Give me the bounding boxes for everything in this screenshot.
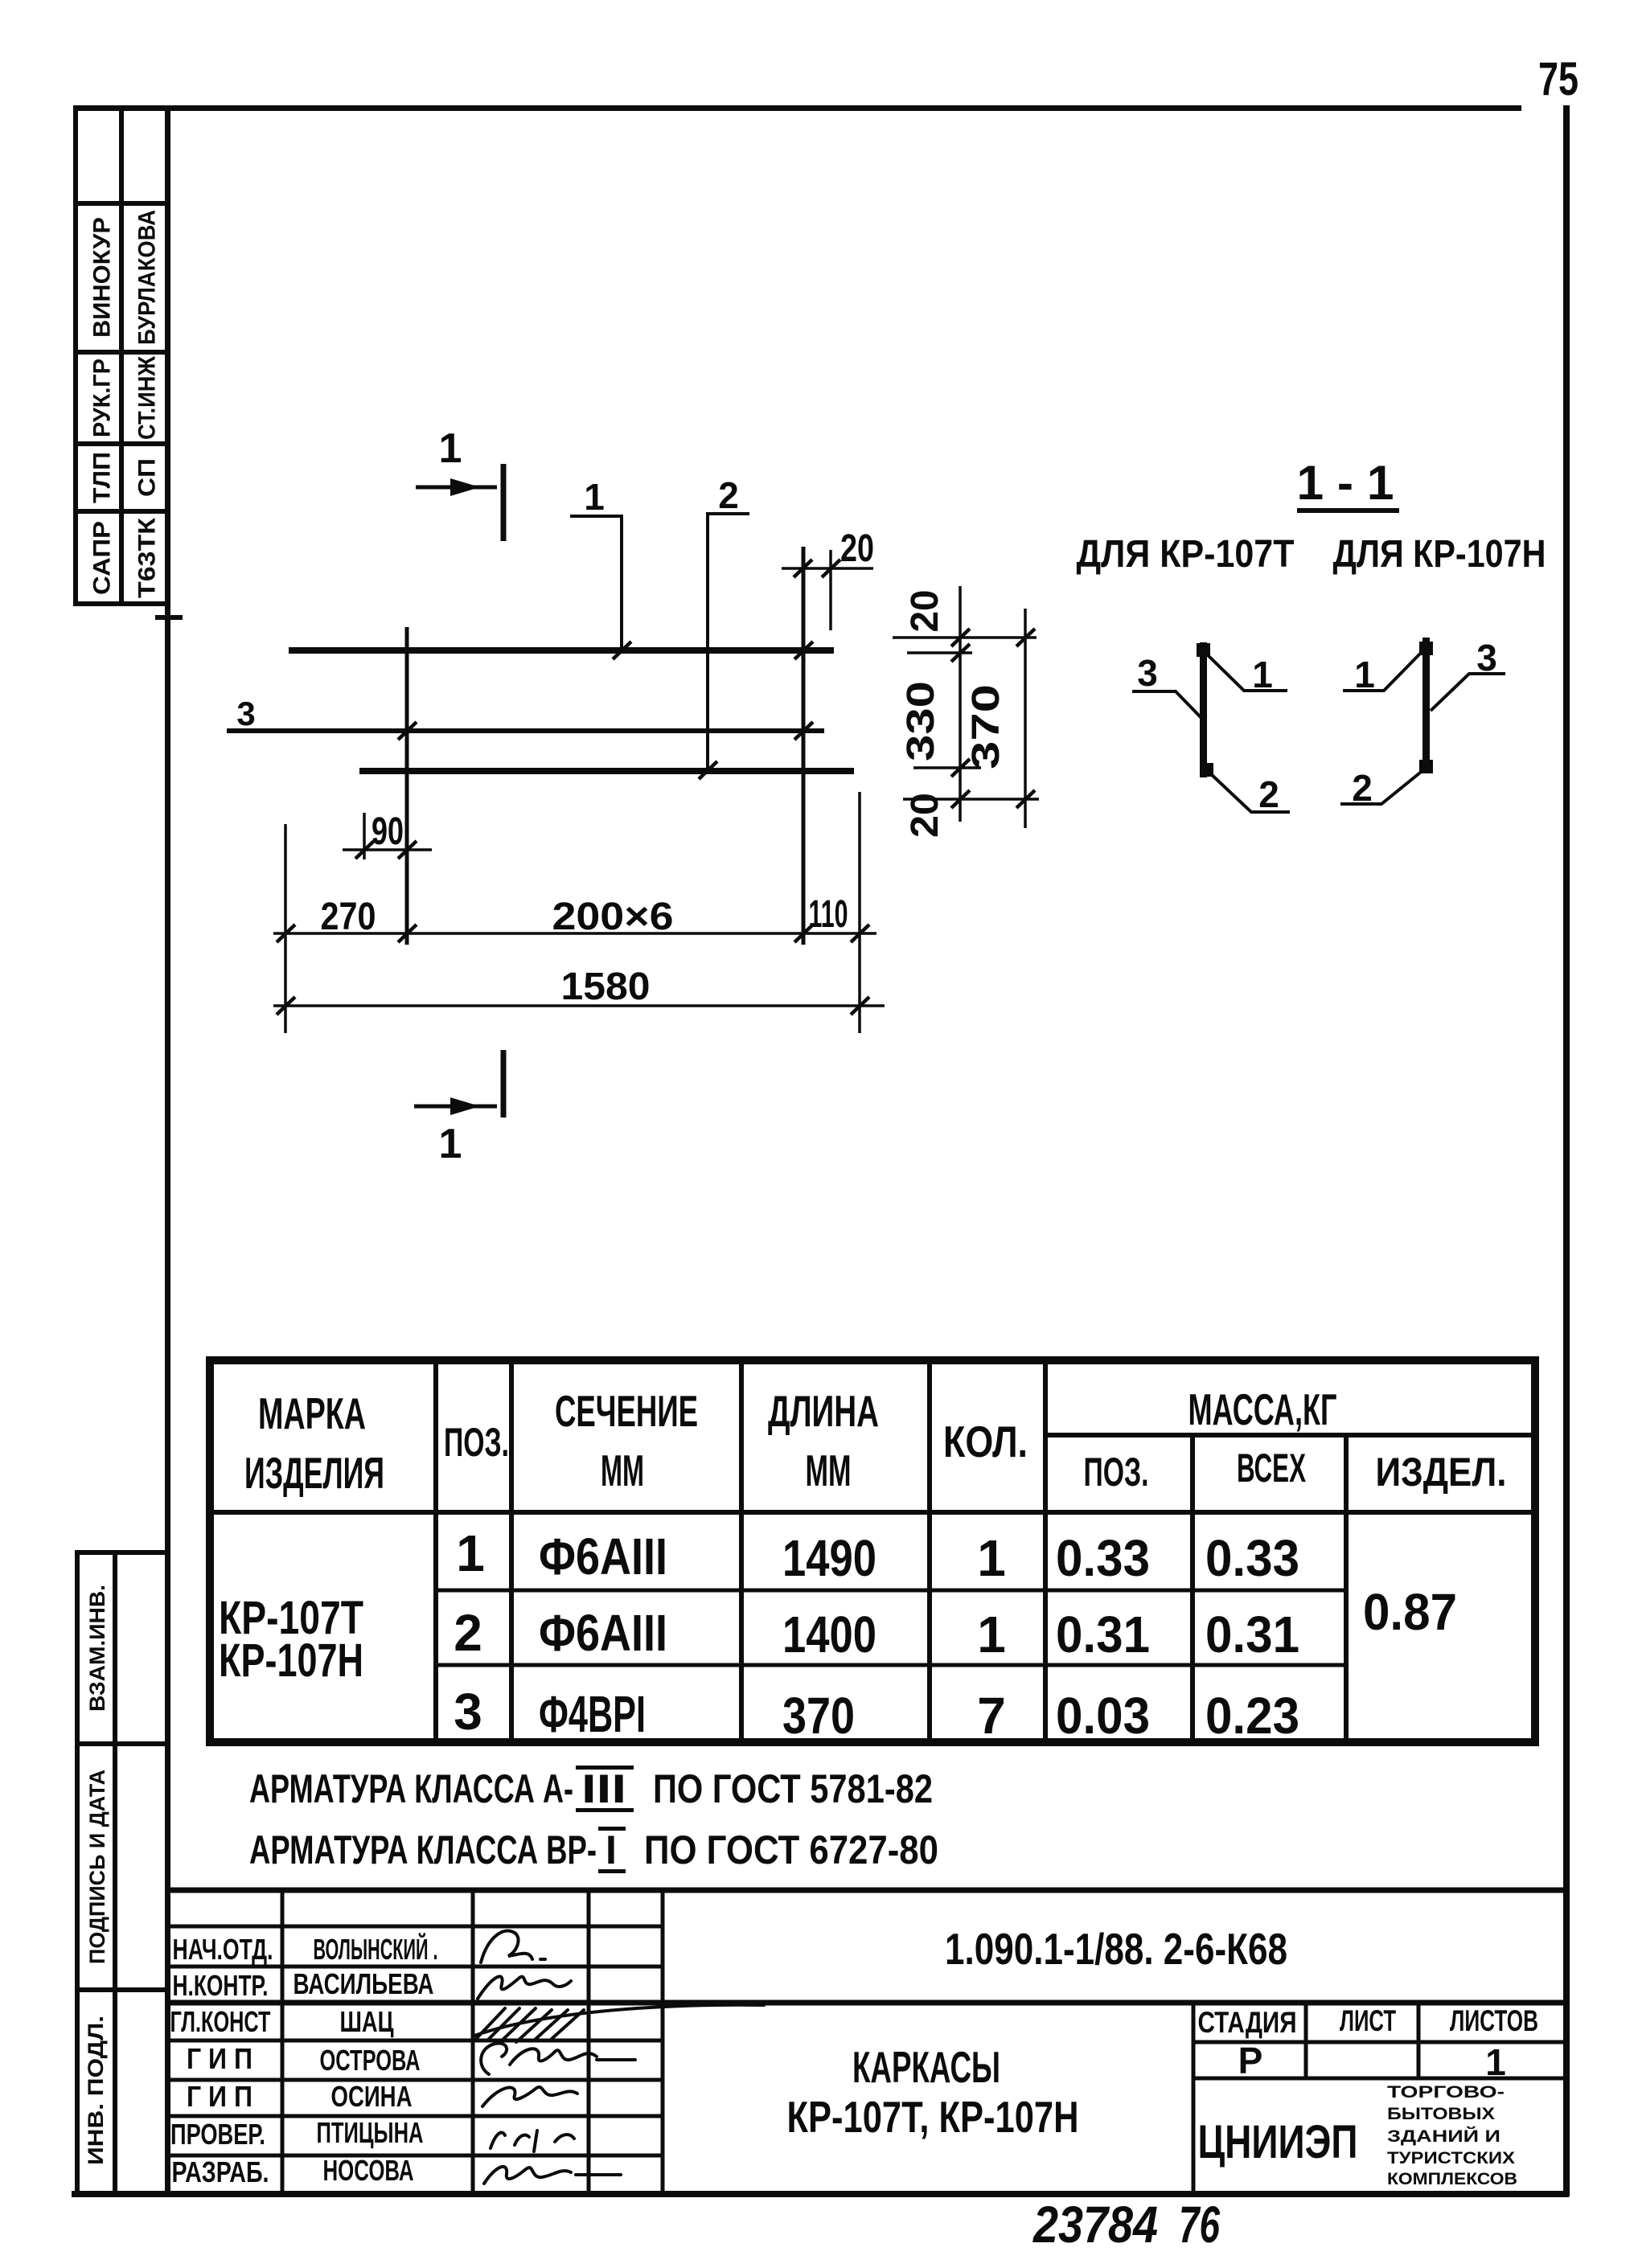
- svg-text:370: 370: [965, 684, 1008, 769]
- svg-text:1: 1: [977, 1529, 1006, 1587]
- svg-text:1: 1: [1354, 654, 1375, 695]
- svg-text:ЗДАНИЙ И: ЗДАНИЙ И: [1387, 2127, 1500, 2146]
- svg-text:90: 90: [372, 810, 404, 853]
- svg-text:ВАСИЛЬЕВА: ВАСИЛЬЕВА: [294, 1967, 434, 2000]
- svg-text:КАРКАСЫ: КАРКАСЫ: [852, 2042, 1000, 2092]
- svg-text:Г И П: Г И П: [187, 2042, 252, 2075]
- svg-text:ЛИСТ: ЛИСТ: [1340, 2004, 1396, 2037]
- svg-text:2: 2: [454, 1604, 482, 1662]
- svg-text:ДЛЯ КР-107Т: ДЛЯ КР-107Т: [1077, 533, 1295, 576]
- svg-text:Р: Р: [1238, 2040, 1263, 2081]
- svg-text:0.87: 0.87: [1363, 1583, 1457, 1641]
- svg-text:0.31: 0.31: [1205, 1606, 1299, 1663]
- svg-text:Т63ТК: Т63ТК: [134, 517, 161, 598]
- svg-text:3: 3: [1476, 637, 1497, 679]
- svg-text:ГЛ.КОНСТ: ГЛ.КОНСТ: [170, 2005, 271, 2038]
- svg-text:3: 3: [1137, 652, 1158, 694]
- svg-text:АРМАТУРА КЛАССА ВР-: АРМАТУРА КЛАССА ВР-: [249, 1827, 597, 1872]
- svg-text:ТЛП: ТЛП: [89, 452, 116, 503]
- svg-text:2: 2: [1352, 767, 1373, 809]
- svg-text:200×6: 200×6: [552, 896, 674, 938]
- svg-text:ММ: ММ: [601, 1446, 644, 1495]
- svg-text:I: I: [606, 1827, 617, 1872]
- svg-text:Ф6АIII: Ф6АIII: [539, 1604, 667, 1662]
- svg-text:ЛИСТОВ: ЛИСТОВ: [1450, 2004, 1538, 2037]
- svg-text:СЕЧЕНИЕ: СЕЧЕНИЕ: [555, 1386, 698, 1436]
- svg-text:СП: СП: [134, 458, 161, 497]
- svg-text:ПТИЦЫНА: ПТИЦЫНА: [317, 2116, 424, 2149]
- svg-text:ВЗАМ.ИНВ.: ВЗАМ.ИНВ.: [85, 1585, 109, 1712]
- svg-text:СТ.ИНЖ: СТ.ИНЖ: [134, 355, 161, 440]
- svg-text:2: 2: [1258, 773, 1279, 815]
- svg-text:1: 1: [977, 1606, 1006, 1663]
- svg-text:1 - 1: 1 - 1: [1297, 456, 1394, 510]
- svg-text:2: 2: [718, 474, 739, 516]
- svg-text:370: 370: [782, 1687, 855, 1745]
- svg-text:3: 3: [236, 695, 255, 732]
- svg-text:ОСТРОВА: ОСТРОВА: [320, 2044, 421, 2077]
- svg-text:0.33: 0.33: [1205, 1529, 1299, 1587]
- svg-text:ДЛИНА: ДЛИНА: [768, 1386, 879, 1436]
- svg-text:ТУРИСТСКИХ: ТУРИСТСКИХ: [1387, 2149, 1515, 2168]
- svg-text:0.31: 0.31: [1056, 1606, 1150, 1663]
- svg-text:7: 7: [977, 1687, 1006, 1745]
- svg-text:ПОДПИСЬ И ДАТА: ПОДПИСЬ И ДАТА: [85, 1770, 109, 1964]
- svg-text:САПР: САПР: [89, 521, 116, 595]
- svg-text:МАРКА: МАРКА: [258, 1388, 366, 1438]
- svg-text:ИЗДЕЛ.: ИЗДЕЛ.: [1376, 1450, 1507, 1495]
- svg-text:РАЗРАБ.: РАЗРАБ.: [172, 2155, 269, 2188]
- svg-text:1400: 1400: [782, 1606, 876, 1663]
- svg-text:20: 20: [840, 527, 874, 570]
- svg-text:1.090.1-1/88. 2-6-К68: 1.090.1-1/88. 2-6-К68: [945, 1924, 1287, 1974]
- svg-text:ЦНИИЭП: ЦНИИЭП: [1198, 2116, 1358, 2168]
- svg-text:1: 1: [439, 1121, 462, 1167]
- svg-text:20: 20: [904, 793, 946, 838]
- svg-text:ВИНОКУР: ВИНОКУР: [89, 217, 116, 338]
- svg-text:ПОЗ.: ПОЗ.: [444, 1420, 509, 1465]
- svg-text:110: 110: [809, 893, 848, 936]
- svg-text:Ф6АIII: Ф6АIII: [539, 1528, 667, 1585]
- svg-text:1: 1: [1485, 2041, 1506, 2083]
- svg-text:ОСИНА: ОСИНА: [331, 2080, 413, 2113]
- svg-text:БЫТОВЫХ: БЫТОВЫХ: [1387, 2105, 1495, 2123]
- svg-text:ВСЕХ: ВСЕХ: [1237, 1446, 1306, 1491]
- svg-text:ПОЗ.: ПОЗ.: [1084, 1450, 1149, 1495]
- svg-text:330: 330: [900, 681, 942, 761]
- svg-text:БУРЛАКОВА: БУРЛАКОВА: [134, 210, 161, 345]
- svg-text:ИЗДЕЛИЯ: ИЗДЕЛИЯ: [244, 1448, 384, 1498]
- svg-text:ТОРГОВО-: ТОРГОВО-: [1387, 2083, 1505, 2102]
- svg-text:МАССА,КГ: МАССА,КГ: [1188, 1384, 1337, 1434]
- svg-text:ПО ГОСТ 6727-80: ПО ГОСТ 6727-80: [644, 1827, 938, 1872]
- svg-text:1: 1: [1252, 654, 1273, 695]
- svg-text:0.03: 0.03: [1056, 1687, 1150, 1745]
- svg-text:Н.КОНТР.: Н.КОНТР.: [173, 1969, 269, 2002]
- svg-text:1580: 1580: [561, 966, 651, 1008]
- svg-text:1: 1: [456, 1524, 485, 1582]
- svg-text:ШАЦ: ШАЦ: [340, 2005, 395, 2038]
- svg-text:III: III: [581, 1766, 626, 1811]
- svg-text:РУК.ГР: РУК.ГР: [89, 359, 116, 437]
- svg-text:СТАДИЯ: СТАДИЯ: [1198, 2006, 1297, 2039]
- svg-text:НАЧ.ОТД.: НАЧ.ОТД.: [173, 1933, 273, 1966]
- svg-text:АРМАТУРА КЛАССА А-: АРМАТУРА КЛАССА А-: [249, 1766, 573, 1811]
- svg-text:Ф4ВРI: Ф4ВРI: [539, 1685, 646, 1743]
- svg-text:КР-107Н: КР-107Н: [219, 1634, 363, 1687]
- svg-text:Г И П: Г И П: [187, 2080, 252, 2113]
- svg-text:270: 270: [321, 896, 376, 938]
- svg-text:20: 20: [904, 590, 946, 633]
- svg-text:КОМПЛЕКСОВ: КОМПЛЕКСОВ: [1387, 2170, 1517, 2188]
- svg-text:ИНВ. ПОДЛ.: ИНВ. ПОДЛ.: [84, 2016, 108, 2165]
- svg-text:КР-107Т, КР-107Н: КР-107Т, КР-107Н: [787, 2092, 1079, 2142]
- svg-text:ДЛЯ КР-107Н: ДЛЯ КР-107Н: [1333, 533, 1546, 576]
- svg-text:0.23: 0.23: [1205, 1687, 1299, 1745]
- svg-text:0.33: 0.33: [1056, 1529, 1150, 1587]
- svg-text:КОЛ.: КОЛ.: [943, 1417, 1028, 1466]
- svg-text:НОСОВА: НОСОВА: [323, 2154, 414, 2187]
- svg-text:ПРОВЕР.: ПРОВЕР.: [170, 2118, 265, 2151]
- svg-text:ММ: ММ: [806, 1446, 852, 1495]
- svg-text:75: 75: [1538, 53, 1578, 105]
- svg-text:1: 1: [439, 425, 462, 472]
- svg-text:23784: 23784: [1032, 2196, 1158, 2254]
- svg-text:3: 3: [454, 1683, 482, 1741]
- svg-text:ВОЛЫНСКИЙ .: ВОЛЫНСКИЙ .: [314, 1932, 438, 1966]
- svg-text:1490: 1490: [782, 1529, 876, 1587]
- svg-text:76: 76: [1179, 2196, 1220, 2254]
- svg-text:ПО ГОСТ 5781-82: ПО ГОСТ 5781-82: [653, 1766, 933, 1811]
- svg-text:1: 1: [584, 476, 605, 518]
